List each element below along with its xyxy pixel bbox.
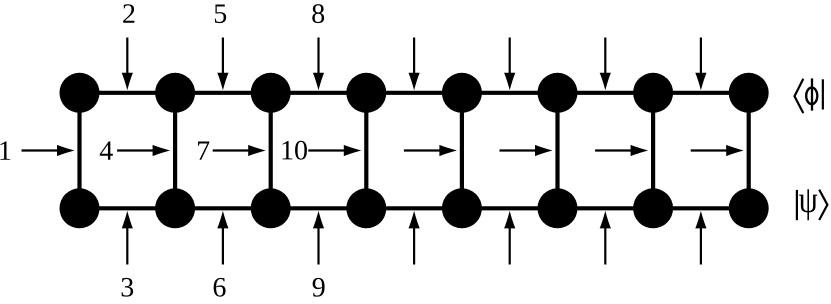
tensor node bottom 8 xyxy=(729,188,769,228)
up arrow (col 4) xyxy=(409,211,420,265)
up arrow (col 6) xyxy=(600,211,611,265)
wire top row bra chain xyxy=(80,91,749,95)
right arrow (rung 8) xyxy=(691,145,744,156)
tensor node bottom 4 xyxy=(346,188,386,228)
up arrow 6 xyxy=(217,211,228,265)
tensor node top 2 xyxy=(155,73,195,113)
bra label: phi glyph stem xyxy=(811,78,813,110)
down arrow (col 5) xyxy=(504,38,515,91)
right arrow (rung 7) xyxy=(595,145,648,156)
down arrow (col 7) xyxy=(695,38,706,91)
tensor node top 6 xyxy=(538,73,578,113)
label 1 xyxy=(0,141,10,159)
down arrow 8 xyxy=(313,38,324,91)
wire vertical rung 5 xyxy=(460,93,464,209)
up arrow (col 5) xyxy=(504,211,515,265)
wire vertical rung 2 xyxy=(173,93,177,209)
down arrow 5 xyxy=(217,38,228,91)
bra label: vertical bar of phi xyxy=(822,79,824,109)
ket label: vertical bar of psi xyxy=(796,190,798,220)
tensor node bottom 2 xyxy=(155,188,195,228)
tensor node top 3 xyxy=(251,73,291,113)
wire vertical rung 7 xyxy=(651,93,655,209)
ket label: right angle bracket of psi xyxy=(819,190,827,220)
tensor node top 8 xyxy=(729,73,769,113)
tensor node top 4 xyxy=(346,73,386,113)
label 4 xyxy=(100,141,113,159)
up arrow 3 xyxy=(122,211,133,265)
ket label: psi glyph xyxy=(799,189,817,220)
label 6 xyxy=(214,278,226,297)
right arrow 1 xyxy=(22,145,75,156)
bra label: left angle bracket of phi xyxy=(795,79,804,113)
tensor node top 5 xyxy=(442,73,482,113)
down arrow (col 6) xyxy=(600,38,611,91)
tensor node bottom 3 xyxy=(251,188,291,228)
right arrow (rung 5) xyxy=(404,145,457,156)
wire vertical rung 4 xyxy=(364,93,368,209)
tensor node bottom 6 xyxy=(538,188,578,228)
down arrow (col 4) xyxy=(409,38,420,91)
wire bottom row ket chain xyxy=(80,206,749,210)
tensor node top 7 xyxy=(633,73,673,113)
tensor node bottom 7 xyxy=(633,188,673,228)
wire vertical rung 1 xyxy=(77,93,81,209)
up arrow (col 7) xyxy=(695,211,706,265)
label 7 xyxy=(198,141,209,159)
tensor node top 1 xyxy=(60,73,100,113)
right arrow 7 xyxy=(213,145,266,156)
label 2 xyxy=(123,4,134,23)
wire vertical rung 6 xyxy=(555,93,559,209)
right arrow 10 xyxy=(308,145,361,156)
bra label: phi glyph bowl xyxy=(806,88,817,105)
right arrow 4 xyxy=(117,145,170,156)
label 9 xyxy=(313,278,325,297)
label 8 xyxy=(312,4,324,23)
up arrow 9 xyxy=(313,211,324,265)
right arrow (rung 6) xyxy=(500,145,553,156)
label 10 xyxy=(282,141,306,160)
wire vertical rung 3 xyxy=(269,93,273,209)
label 5 xyxy=(215,4,226,23)
label 3 xyxy=(122,278,134,297)
down arrow 2 xyxy=(122,38,133,91)
tensor node bottom 1 xyxy=(60,188,100,228)
wire vertical rung 8 xyxy=(747,93,751,209)
tensor node bottom 5 xyxy=(442,188,482,228)
